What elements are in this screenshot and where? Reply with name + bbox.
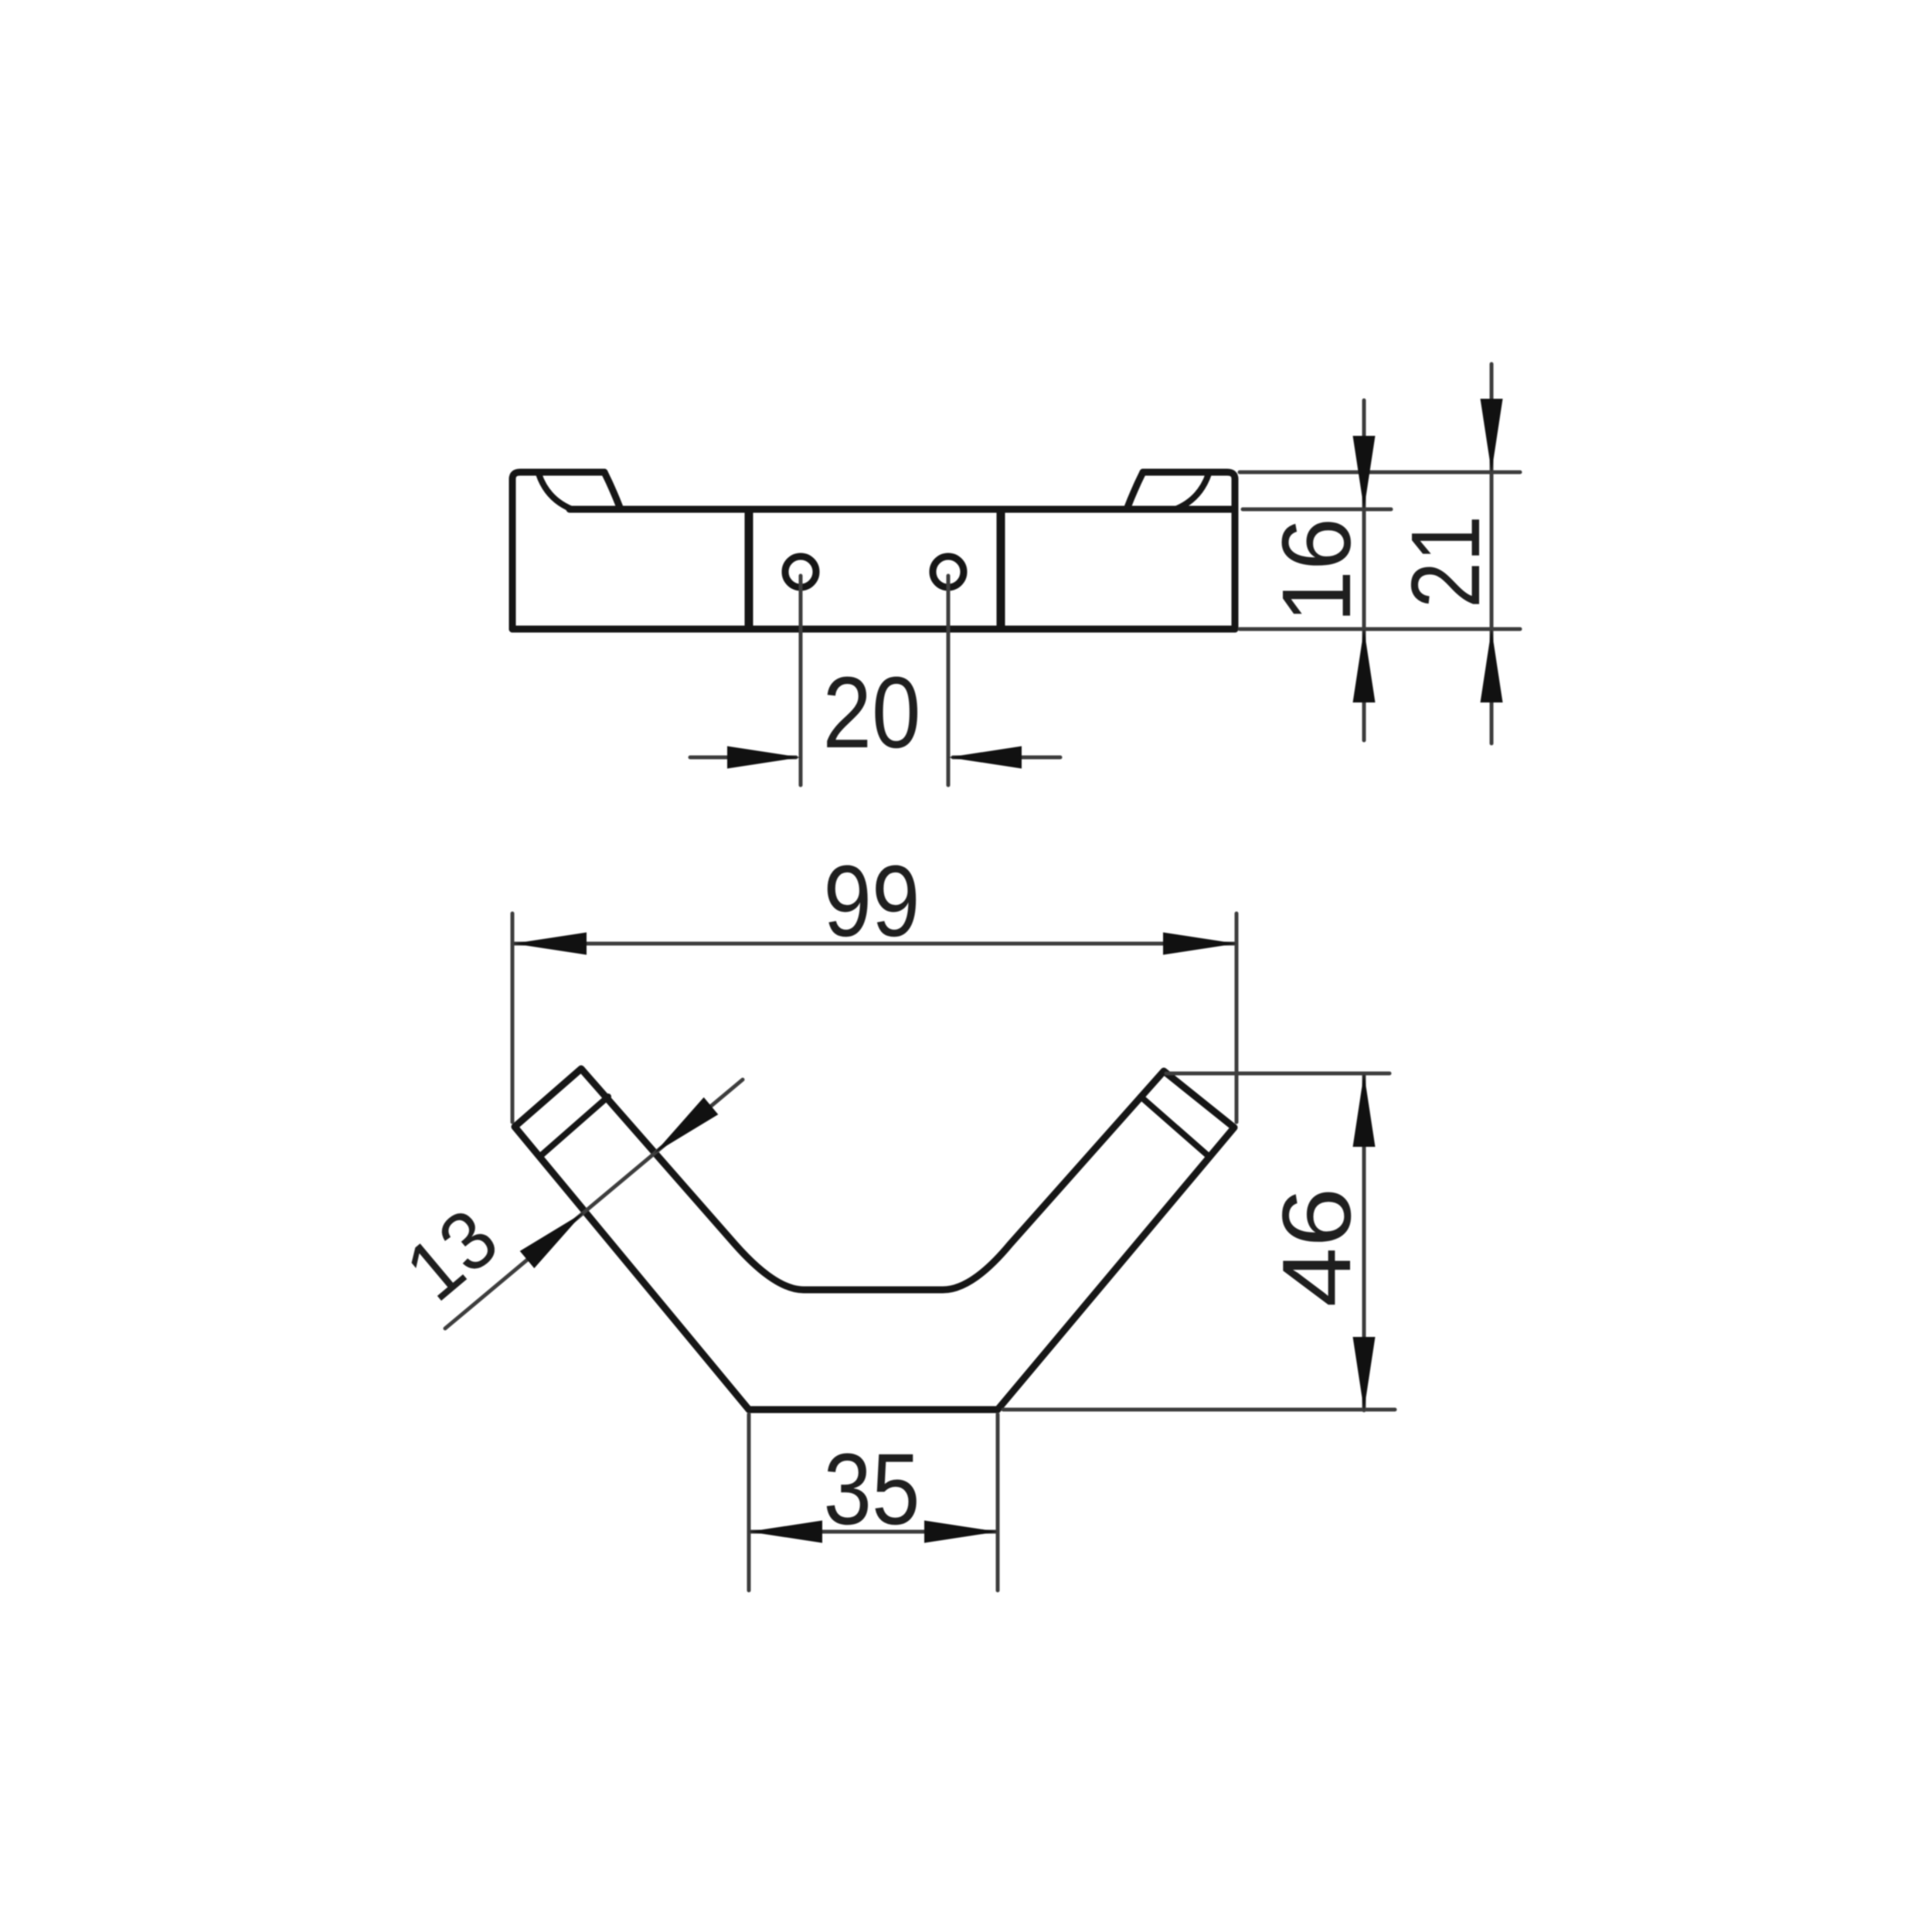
dimension 46: top arrowhead xyxy=(1353,1073,1376,1147)
dimension 20: right arrowhead xyxy=(948,747,1022,769)
svg-text:99: 99 xyxy=(824,844,920,957)
extension line for 21 at notch top xyxy=(1240,471,1520,474)
extension line for 16 at bar top xyxy=(1243,508,1391,512)
top view: right notch chamfer xyxy=(1127,472,1143,509)
dimension 35: right arrowhead xyxy=(924,1521,998,1543)
dimension 35: left arrowhead xyxy=(749,1521,822,1543)
svg-text:16: 16 xyxy=(1262,518,1371,623)
centerline of hole H1 xyxy=(799,576,803,785)
dimension 13: upper arrowhead xyxy=(655,1097,718,1153)
dimension 99: right arrowhead xyxy=(1163,933,1236,955)
dimension 13: lower arrowhead xyxy=(520,1213,583,1268)
dimension 16: upper arrowhead xyxy=(1353,436,1376,509)
dimension 35: right extension line xyxy=(996,1414,1000,1590)
dimension 35: dim line xyxy=(749,1530,998,1534)
dimension 20: right dim line xyxy=(953,756,1060,760)
top view: right raised tip plateau xyxy=(1143,472,1235,479)
dimension 21: lower arrowhead xyxy=(1481,629,1503,702)
front view: hook outline xyxy=(515,1069,1234,1410)
front view: left tip ferrule line xyxy=(539,1097,608,1157)
dimension 99: dim line xyxy=(513,942,1236,946)
dimension 21: upper arrowhead xyxy=(1481,399,1503,472)
top view: bottom edge xyxy=(512,626,1235,633)
centerline of hole H2 xyxy=(947,576,951,785)
dimension 99: left extension line xyxy=(511,913,515,1122)
svg-text:13: 13 xyxy=(388,1191,515,1318)
dimension 46: bottom extension line xyxy=(1003,1408,1395,1412)
dimension 99: right extension line xyxy=(1235,913,1239,1122)
extension line at bar bottom (16/21) xyxy=(1240,628,1520,631)
dimension 99: left arrowhead xyxy=(513,933,587,955)
dimension 20: left arrowhead xyxy=(727,747,801,769)
dimension 21: dim line xyxy=(1490,364,1494,743)
svg-text:20: 20 xyxy=(823,655,921,769)
top view: left notch chamfer xyxy=(604,472,621,509)
top view: screw hole H1 xyxy=(785,556,816,587)
top view: right end vertical edge xyxy=(1232,479,1239,629)
top view: right notch fillet line xyxy=(1175,474,1209,509)
top view: left notch fillet line xyxy=(539,474,572,509)
svg-text:35: 35 xyxy=(824,1432,920,1546)
dimension 20: left dim line xyxy=(690,756,796,760)
top view: left end vertical edge xyxy=(509,479,516,629)
top view: right divider line xyxy=(997,511,1005,628)
dimension 13: leader line across arm xyxy=(445,1080,743,1328)
top view: left raised tip plateau xyxy=(512,472,604,479)
dimension 35: left extension line xyxy=(747,1414,751,1590)
dimension 16: dim line xyxy=(1362,400,1366,740)
front view: right tip ferrule line xyxy=(1141,1097,1209,1157)
top view: left divider line xyxy=(745,511,753,628)
dimension 46: bottom arrowhead xyxy=(1353,1337,1376,1410)
top view: screw hole H2 xyxy=(933,556,964,587)
top view: main top surface line xyxy=(570,506,1235,513)
svg-text:21: 21 xyxy=(1391,515,1500,608)
dimension 46: top extension line xyxy=(1166,1072,1389,1076)
svg-text:46: 46 xyxy=(1262,1188,1371,1308)
dimension 16: lower arrowhead xyxy=(1353,629,1376,702)
dimension 46: dim line xyxy=(1362,1073,1366,1410)
